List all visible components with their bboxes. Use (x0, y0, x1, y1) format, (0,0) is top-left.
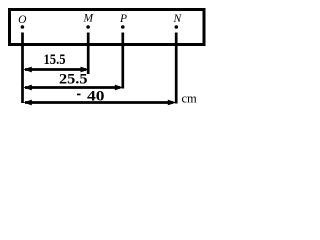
svg-text:N: N (172, 13, 182, 25)
svg-text:15.5: 15.5 (44, 52, 66, 68)
svg-text:cm: cm (182, 92, 198, 106)
svg-text:P: P (119, 13, 127, 25)
svg-text:O: O (18, 14, 27, 26)
svg-text:40: 40 (87, 89, 105, 105)
svg-text:25.5: 25.5 (59, 72, 88, 88)
svg-text:M: M (83, 13, 95, 25)
